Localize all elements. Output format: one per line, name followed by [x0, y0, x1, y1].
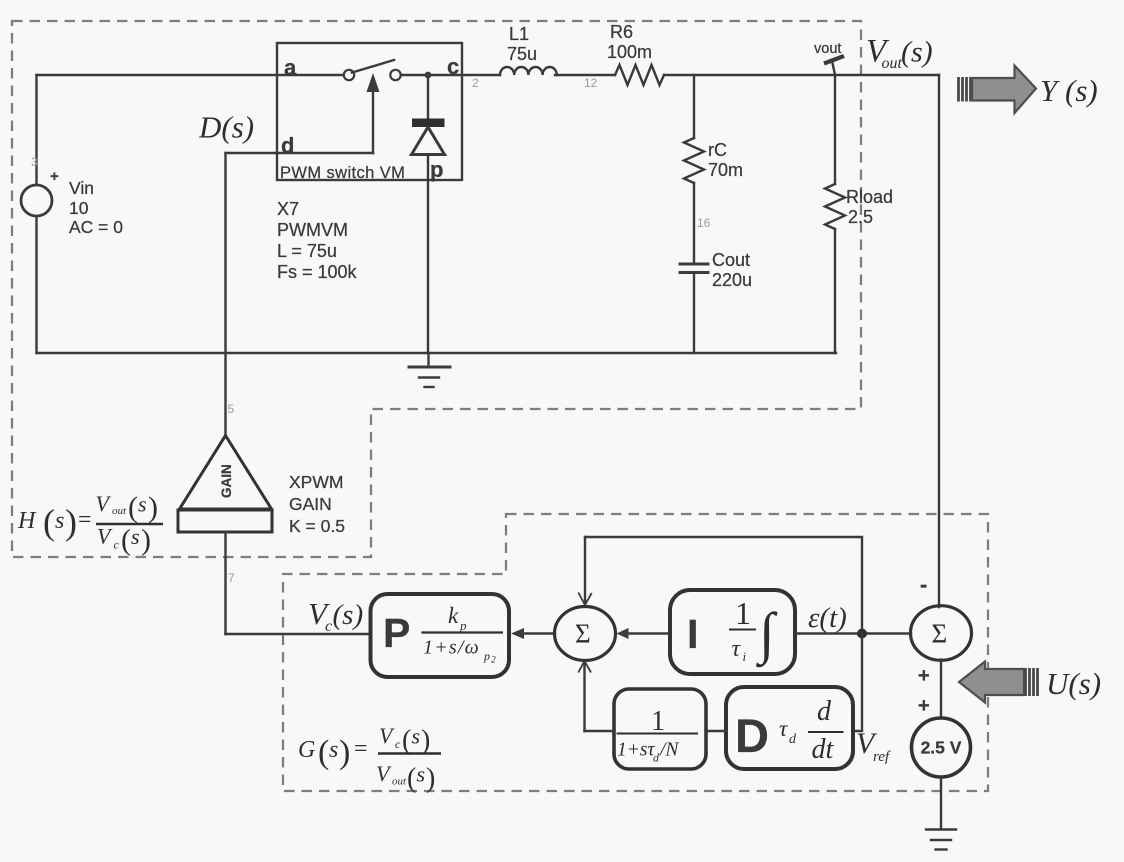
- wire eps to I: [795, 632, 911, 634]
- svg-text:=: =: [78, 507, 92, 533]
- svg-text:c: c: [114, 538, 120, 552]
- svg-text:+: +: [918, 665, 930, 687]
- ground power stage: [409, 366, 450, 369]
- svg-text:U(s): U(s): [1046, 666, 1101, 701]
- wire L1 to R6: [555, 74, 615, 76]
- svg-text:(: (: [128, 491, 138, 524]
- svg-text:L = 75u: L = 75u: [277, 241, 337, 261]
- PWM switch box: [277, 43, 462, 180]
- wire Rload bottom: [834, 229, 836, 353]
- svg-text:Fs = 100k: Fs = 100k: [277, 262, 358, 282]
- inductor L1: [500, 67, 557, 75]
- source 2.5V: [912, 718, 971, 777]
- svg-text:1+sτ: 1+sτ: [617, 740, 655, 761]
- node c junction dot: [425, 72, 432, 79]
- svg-text:12: 12: [584, 76, 598, 90]
- svg-text:=: =: [354, 736, 368, 762]
- wire diode top: [427, 75, 429, 119]
- svg-text:out: out: [112, 505, 127, 517]
- svg-text:τ: τ: [779, 716, 788, 741]
- arrow into sum bottom: [583, 662, 585, 732]
- svg-text:(: (: [121, 524, 131, 557]
- svg-text:G: G: [298, 737, 315, 763]
- svg-text:τ: τ: [732, 636, 742, 662]
- svg-text:PWM switch VM: PWM switch VM: [280, 164, 405, 182]
- svg-text:+: +: [918, 695, 930, 717]
- svg-text:2.5 V: 2.5 V: [921, 738, 962, 758]
- switch S1: [344, 70, 354, 80]
- svg-text:c: c: [325, 618, 332, 635]
- wire R6 to vout corner: [664, 74, 939, 76]
- summer sigma 1: [555, 607, 616, 661]
- svg-text:L1: L1: [509, 24, 529, 44]
- svg-text:XPWM: XPWM: [289, 472, 343, 492]
- label H(s) formula: [17, 491, 163, 557]
- block D: [726, 687, 853, 769]
- svg-text:10: 10: [69, 198, 89, 218]
- svg-text:K = 0.5: K = 0.5: [289, 516, 345, 536]
- svg-text:c: c: [395, 737, 401, 751]
- voltage source Vin: [21, 185, 52, 216]
- svg-text:7: 7: [228, 571, 235, 585]
- svg-text:s: s: [412, 724, 421, 749]
- wire d inside box: [277, 152, 373, 154]
- svg-text:Y (s): Y (s): [1040, 73, 1098, 108]
- arrow into sum top: [584, 537, 586, 604]
- diode D1 cathode bar: [412, 119, 445, 128]
- svg-text:): ): [421, 725, 430, 756]
- wire gain drop: [224, 153, 226, 435]
- svg-text:Vin: Vin: [69, 178, 94, 198]
- wire D to filter: [706, 730, 726, 732]
- svg-text:PWMVM: PWMVM: [277, 220, 348, 240]
- svg-text:d: d: [789, 732, 797, 747]
- wire switch to L1: [401, 74, 500, 76]
- dashed box G(s) controller: [283, 514, 988, 791]
- svg-text:(: (: [318, 734, 329, 771]
- wire Rload top: [834, 75, 836, 184]
- svg-text:-: -: [920, 572, 927, 597]
- svg-text:70m: 70m: [708, 160, 743, 180]
- gain amp base rect: [178, 510, 272, 532]
- resistor R6: [615, 65, 664, 85]
- svg-text:2.5: 2.5: [848, 207, 873, 227]
- svg-text:(: (: [402, 725, 411, 756]
- ground reference: [926, 828, 956, 830]
- svg-text:dt: dt: [812, 734, 835, 765]
- svg-text:1: 1: [651, 706, 665, 737]
- svg-text:1+s/ω: 1+s/ω: [423, 637, 480, 659]
- svg-text:Σ: Σ: [932, 619, 948, 649]
- svg-text:(: (: [43, 502, 55, 542]
- svg-text:ref: ref: [873, 749, 891, 765]
- svg-text:2: 2: [491, 656, 496, 666]
- svg-text:s: s: [131, 524, 140, 549]
- svg-text:2: 2: [472, 76, 479, 90]
- wire source to ground: [940, 777, 942, 829]
- svg-text:100m: 100m: [607, 42, 652, 62]
- diode D1 triangle: [412, 127, 445, 155]
- svg-text:75u: 75u: [507, 44, 537, 64]
- block P: [371, 594, 510, 677]
- dashed box H(s) power stage: [12, 21, 861, 557]
- svg-text:): ): [148, 491, 158, 524]
- svg-text:H: H: [17, 508, 37, 534]
- svg-text:GAIN: GAIN: [289, 494, 332, 514]
- svg-text:(: (: [407, 763, 416, 794]
- wire bottom rail: [37, 352, 837, 354]
- svg-text:P: P: [383, 610, 410, 656]
- svg-text:D(s): D(s): [198, 110, 254, 145]
- svg-text:out: out: [392, 776, 407, 788]
- svg-text:a: a: [284, 55, 297, 80]
- node vout tick: [824, 56, 844, 64]
- svg-text:220u: 220u: [712, 270, 752, 290]
- svg-text:i: i: [743, 649, 747, 664]
- svg-text:out: out: [882, 55, 903, 72]
- wire ground stub: [427, 353, 429, 366]
- arrow sum to P: [521, 632, 555, 634]
- svg-text:I: I: [687, 611, 698, 657]
- wire top input: [37, 74, 344, 76]
- svg-text:s: s: [138, 492, 147, 517]
- svg-text:): ): [339, 734, 350, 771]
- wire sum2 to source: [940, 660, 942, 719]
- svg-text:d: d: [281, 133, 294, 158]
- node eps junction: [857, 629, 867, 639]
- arrow U(s): [959, 662, 1038, 703]
- svg-text:k: k: [448, 603, 459, 628]
- wire eps down to D: [853, 634, 862, 732]
- svg-text:vout: vout: [814, 41, 841, 57]
- wire rC branch top: [693, 75, 695, 138]
- svg-text:p: p: [459, 618, 467, 633]
- svg-text:(s): (s): [901, 36, 933, 69]
- wire filter to sum: [585, 730, 615, 732]
- svg-text:AC = 0: AC = 0: [69, 217, 123, 237]
- resistor rC: [684, 138, 704, 183]
- svg-text:): ): [426, 763, 435, 794]
- block I: [670, 590, 795, 674]
- wire Vin top: [35, 75, 37, 185]
- wire feedback right: [938, 75, 940, 607]
- svg-text:Cout: Cout: [712, 250, 750, 270]
- summer sigma 2: [911, 606, 972, 661]
- wire rC to Cout: [693, 183, 695, 263]
- wire p branch: [427, 155, 429, 354]
- capacitor Cout: [680, 263, 708, 266]
- svg-text:R6: R6: [610, 22, 633, 42]
- svg-text:16: 16: [697, 216, 711, 230]
- svg-text:d: d: [653, 751, 660, 765]
- svg-text:+: +: [50, 168, 59, 185]
- svg-text:Rload: Rload: [846, 187, 893, 207]
- svg-text:Σ: Σ: [575, 619, 591, 649]
- svg-text:rC: rC: [708, 140, 727, 160]
- svg-text:(s): (s): [333, 599, 364, 631]
- svg-text:D: D: [735, 709, 769, 762]
- svg-text:): ): [141, 524, 151, 557]
- resistor Rload: [825, 184, 845, 229]
- svg-text:s: s: [329, 737, 338, 763]
- wire Vin bottom: [35, 217, 37, 354]
- wire Cout bottom: [693, 274, 695, 353]
- gain amp triangle: [180, 436, 272, 510]
- svg-text:): ): [65, 502, 77, 542]
- label G(s) formula: [298, 723, 441, 794]
- wire gain out: [224, 532, 226, 634]
- block filter 1/(1+s taud/N): [614, 689, 706, 769]
- svg-text:5: 5: [228, 402, 235, 416]
- svg-text:p: p: [483, 649, 490, 663]
- svg-text:p: p: [430, 157, 443, 182]
- svg-text:3: 3: [31, 155, 38, 169]
- svg-text:s: s: [55, 508, 64, 534]
- svg-text:s: s: [417, 762, 426, 787]
- wire feedforward top: [585, 537, 862, 628]
- arrow Y(s): [959, 66, 1037, 114]
- arrow I to sum: [627, 632, 670, 634]
- wire d out to gain: [226, 152, 278, 154]
- svg-text:c: c: [447, 54, 459, 79]
- svg-text:GAIN: GAIN: [219, 464, 234, 498]
- svg-text:X7: X7: [277, 199, 299, 219]
- control arrow: [372, 88, 374, 153]
- svg-text:d: d: [817, 696, 832, 727]
- wire Vc to P block: [226, 633, 371, 635]
- svg-text:1: 1: [735, 595, 751, 631]
- svg-text:/N: /N: [659, 740, 679, 761]
- svg-text:ε(t): ε(t): [808, 602, 847, 634]
